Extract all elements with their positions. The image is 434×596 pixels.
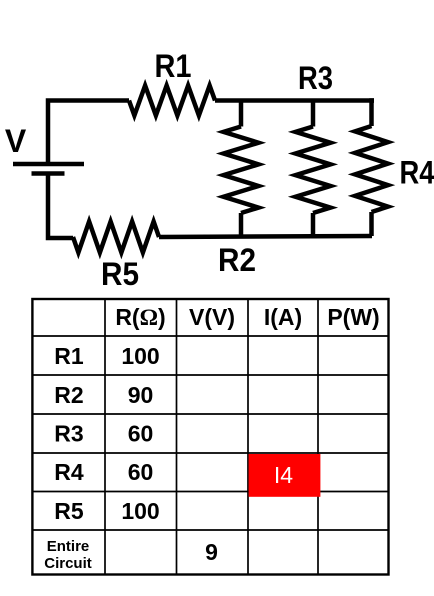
table row R1: [54, 343, 159, 369]
svg-text:Entire: Entire: [47, 538, 90, 555]
svg-text:60: 60: [128, 459, 154, 485]
battery V bottom plate: [32, 171, 65, 176]
table header row: [115, 304, 379, 330]
stub R4 bottom: [369, 212, 374, 236]
table grid: [32, 299, 388, 575]
node/stub R2 top: [239, 101, 244, 127]
svg-text:R2: R2: [218, 242, 256, 278]
node/stub R3 top: [311, 101, 316, 127]
svg-text:100: 100: [121, 498, 159, 524]
svg-text:R5: R5: [54, 498, 84, 524]
wire left-bottom: battery negative down and right to R5: [48, 176, 73, 239]
svg-text:R1: R1: [54, 343, 84, 369]
svg-text:V: V: [5, 123, 27, 159]
highlighted cell I4 (red): [249, 454, 321, 497]
svg-text:9: 9: [205, 539, 218, 565]
table row R4: [54, 459, 153, 485]
svg-text:90: 90: [128, 382, 154, 408]
svg-text:R2: R2: [54, 382, 83, 408]
svg-text:100: 100: [121, 343, 159, 369]
table row R3: [54, 421, 153, 447]
wire bottom rail: R5 to bottom-right corner: [159, 236, 372, 237]
table row R2: [54, 382, 153, 408]
table row Entire Circuit: [44, 538, 92, 572]
svg-text:P(W): P(W): [327, 304, 379, 330]
resistor R4: [355, 126, 388, 212]
table row R5: [54, 498, 159, 524]
wire top rail: R1 to top-right corner: [215, 98, 374, 103]
resistor R2: [224, 127, 259, 214]
resistor R1: [129, 86, 215, 116]
svg-text:R(Ω): R(Ω): [115, 304, 165, 330]
stub R4 top from rail corner: [372, 101, 375, 127]
svg-text:R4: R4: [54, 459, 84, 485]
svg-text:R1: R1: [155, 48, 192, 84]
resistor R5: [73, 222, 159, 253]
svg-text:R5: R5: [101, 256, 139, 292]
svg-text:R3: R3: [298, 60, 333, 96]
svg-text:V(V): V(V): [189, 304, 235, 330]
svg-text:Circuit: Circuit: [44, 555, 92, 572]
battery V (source) top plate: [13, 162, 84, 167]
svg-text:I(A): I(A): [264, 304, 302, 330]
svg-text:I4: I4: [274, 462, 293, 488]
svg-text:R4: R4: [400, 155, 434, 191]
stub R2 bottom: [239, 213, 244, 237]
wire top-left: from battery positive up and right to R1: [48, 101, 129, 163]
svg-text:R3: R3: [54, 421, 83, 447]
resistor R3: [296, 127, 331, 214]
svg-text:60: 60: [128, 421, 154, 447]
stub R3 bottom: [311, 213, 316, 237]
